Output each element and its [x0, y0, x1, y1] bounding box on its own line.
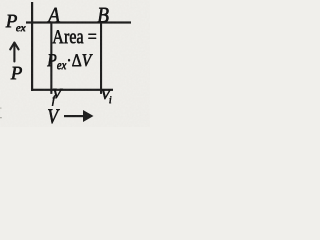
label Vi — [101, 88, 112, 106]
rect left edge Vf — [50, 21, 52, 94]
paper grain — [0, 0, 1, 1]
node B — [97, 4, 109, 26]
Pex level line — [26, 21, 131, 23]
node A — [48, 4, 60, 26]
P axis — [31, 2, 33, 91]
scan speck left edge — [0, 108, 2, 109]
label Vf — [52, 87, 55, 105]
scan speck near axis — [20, 26, 23, 29]
text Pex.DV — [47, 51, 91, 72]
rect right edge Vi — [100, 21, 102, 94]
V axis — [31, 89, 113, 91]
label V (axis) — [47, 106, 58, 127]
up arrow — [10, 43, 18, 62]
label Pex — [6, 12, 26, 34]
right arrow — [64, 115, 85, 117]
wire — [0, 0, 150, 127]
label P — [11, 64, 23, 83]
text Area = — [52, 27, 97, 47]
